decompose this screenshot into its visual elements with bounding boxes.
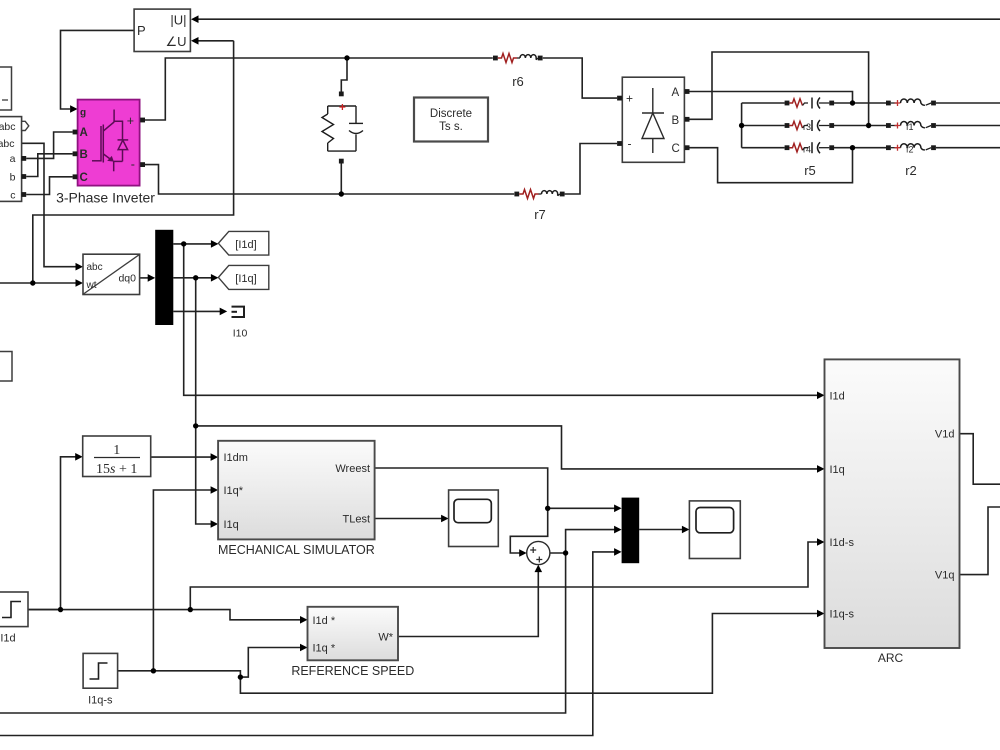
svg-text:I10: I10 [233, 328, 248, 340]
svg-text:abc: abc [87, 262, 103, 273]
svg-text:-: - [628, 137, 632, 151]
svg-text:r2: r2 [905, 163, 917, 178]
svg-text:TLest: TLest [342, 514, 370, 526]
svg-text:Discrete: Discrete [430, 108, 472, 120]
svg-text:1: 1 [113, 443, 120, 458]
svg-text:I1d: I1d [0, 633, 15, 645]
svg-text:MECHANICAL SIMULATOR: MECHANICAL SIMULATOR [218, 543, 375, 557]
svg-text:3-Phase Inveter: 3-Phase Inveter [56, 190, 155, 206]
svg-text:C: C [672, 143, 680, 155]
svg-text:V1q: V1q [935, 570, 955, 582]
svg-text:B: B [672, 115, 680, 127]
svg-text:REFERENCE SPEED: REFERENCE SPEED [291, 664, 414, 678]
svg-text:∠U: ∠U [165, 34, 186, 49]
svg-text:r5: r5 [804, 163, 816, 178]
svg-text:Wreest: Wreest [335, 463, 370, 475]
svg-text:f2: f2 [906, 144, 914, 154]
svg-text:I1q*: I1q* [224, 485, 244, 497]
svg-text:-: - [131, 157, 135, 171]
svg-text:I1d: I1d [830, 390, 845, 402]
svg-text:V1d: V1d [935, 429, 955, 441]
svg-text:r6: r6 [512, 74, 524, 89]
svg-text:W*: W* [378, 632, 393, 644]
svg-text:|U|: |U| [170, 12, 186, 27]
svg-text:labc: labc [0, 138, 15, 150]
svg-text:C: C [80, 172, 88, 184]
svg-text:r7: r7 [534, 207, 546, 222]
svg-text:A: A [672, 87, 680, 99]
svg-text:ARC: ARC [878, 651, 904, 665]
svg-text:wt: wt [86, 280, 97, 291]
svg-text:+: + [127, 114, 134, 128]
svg-text:f1: f1 [906, 122, 914, 132]
svg-text:[I1q]: [I1q] [235, 273, 256, 285]
svg-text:Ts s.: Ts s. [439, 121, 463, 133]
svg-text:[I1d]: [I1d] [235, 239, 256, 251]
svg-text:I1q: I1q [224, 519, 239, 531]
svg-text:A: A [80, 127, 88, 139]
svg-text:dq0: dq0 [118, 273, 136, 285]
svg-text:abc: abc [0, 121, 16, 133]
svg-text:I1q-s: I1q-s [88, 695, 113, 707]
svg-text:I1q *: I1q * [313, 643, 336, 655]
svg-text:B: B [80, 149, 88, 161]
svg-text:a: a [10, 153, 16, 165]
svg-text:I1d-s: I1d-s [830, 537, 855, 549]
svg-text:b: b [10, 171, 16, 183]
svg-text:r3: r3 [803, 122, 811, 132]
svg-text:I1q: I1q [830, 464, 845, 476]
svg-text:I1dm: I1dm [224, 452, 248, 464]
svg-text:+: + [626, 92, 633, 106]
svg-text:c: c [10, 189, 15, 201]
svg-text:I1d *: I1d * [313, 615, 336, 627]
svg-text:g: g [80, 108, 86, 119]
svg-text:r4: r4 [803, 144, 811, 154]
svg-text:I1q-s: I1q-s [830, 609, 855, 621]
svg-text:P: P [137, 23, 146, 38]
svg-text:15s + 1: 15s + 1 [96, 462, 137, 477]
